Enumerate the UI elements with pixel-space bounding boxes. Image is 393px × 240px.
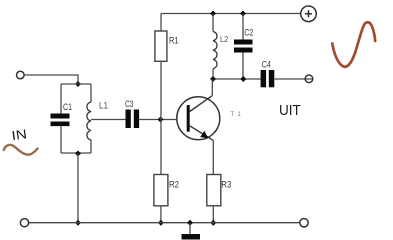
wire: R1 bottom to base junction to R2 top <box>160 61 162 174</box>
wire: R1 top lead <box>160 14 162 32</box>
svg-text:UIT: UIT <box>279 103 301 119</box>
wire: C2 bottom lead <box>242 53 244 80</box>
svg-text:1: 1 <box>237 111 241 118</box>
node C2 top <box>240 11 246 17</box>
svg-text:T: T <box>230 111 234 118</box>
wire: bottom rail <box>29 222 301 224</box>
node C2 bottom <box>240 76 246 82</box>
wire: C4 to output terminal <box>274 78 312 80</box>
node collector junction <box>210 76 216 82</box>
node ground junction <box>187 220 193 226</box>
wire: L2 bottom lead <box>212 69 214 79</box>
capacitor C3 <box>125 99 139 128</box>
terminal V+ <box>301 6 317 22</box>
wire: tank bottom down to ground rail <box>77 154 79 223</box>
inductor L1 <box>87 101 108 141</box>
svg-text:C1: C1 <box>63 102 72 113</box>
wire: ground stub <box>189 223 191 235</box>
svg-text:C4: C4 <box>262 60 271 71</box>
wire: L1 top lead <box>90 84 92 102</box>
wire: C2 top lead <box>242 14 244 40</box>
node A (tank top junction) <box>75 81 81 87</box>
resistor R1 <box>155 31 179 61</box>
inductor L2 <box>213 32 229 69</box>
transistor T1 <box>177 96 241 141</box>
wire: tank bottom rail <box>61 152 91 154</box>
svg-text:L2: L2 <box>220 34 229 44</box>
resistor R2 <box>154 175 179 206</box>
wire: collector up <box>211 79 213 96</box>
svg-text:IN: IN <box>11 126 28 143</box>
node bottom rail left <box>75 220 81 226</box>
capacitor C2 <box>234 27 253 52</box>
terminal input left <box>17 71 25 79</box>
wire: L2 top lead <box>212 14 214 32</box>
wire: top supply rail <box>161 13 301 15</box>
node R2 bottom <box>158 220 164 226</box>
ground <box>182 234 201 240</box>
capacitor C1 <box>51 102 73 126</box>
node base junction <box>158 117 164 123</box>
node tank bottom <box>75 151 81 157</box>
wire: C1 bottom lead <box>60 126 62 153</box>
wire: collector rail to C4 <box>213 78 261 80</box>
node R3 bottom <box>210 220 216 226</box>
svg-text:C3: C3 <box>125 99 134 110</box>
wire: tank top rail <box>61 83 91 85</box>
wire: L1 bottom lead <box>90 140 92 153</box>
capacitor C4 <box>261 60 275 88</box>
node L2 top <box>210 11 216 17</box>
wire: C1 top lead <box>60 84 62 114</box>
input sine squiggle <box>4 145 38 155</box>
terminal bottom right <box>300 219 308 227</box>
svg-text:C2: C2 <box>244 27 253 38</box>
wire: tank to C3 <box>91 119 126 121</box>
svg-text:L1: L1 <box>99 101 108 111</box>
wire: emitter down to R3 <box>212 140 214 174</box>
wire: R2 bottom lead <box>160 206 162 223</box>
svg-text:R1: R1 <box>169 35 179 46</box>
wire: C3 to transistor base <box>139 119 187 121</box>
resistor R3 <box>207 175 232 206</box>
output sine squiggle <box>332 22 375 67</box>
svg-text:R3: R3 <box>221 179 231 190</box>
svg-text:R2: R2 <box>169 179 179 190</box>
terminal bottom left <box>20 219 28 227</box>
terminal output <box>305 75 313 83</box>
wire: input terminal to tank top <box>24 75 78 84</box>
wire: R3 bottom lead <box>212 206 214 223</box>
